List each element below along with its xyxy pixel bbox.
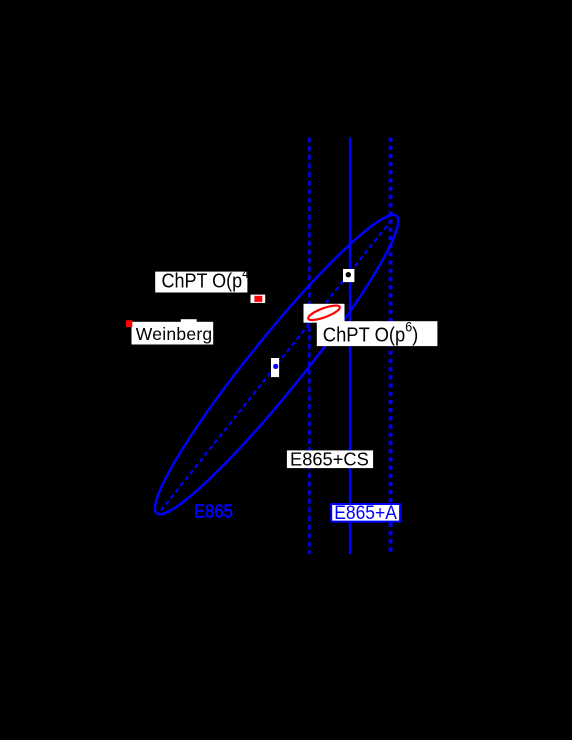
black dot marker xyxy=(346,272,351,277)
white patch behind red ChPT O(p6) ellipse xyxy=(304,304,345,323)
vertical dotted line (E865+A) xyxy=(389,138,393,555)
Weinberg red square marker xyxy=(126,320,132,327)
vertical dashed line (E865+CS left bound) xyxy=(308,138,310,555)
ChPT O(p6) label box xyxy=(317,321,438,346)
E865+A label box (blue border) xyxy=(331,504,400,522)
blue central data point (E865) xyxy=(273,364,278,369)
Weinberg label box xyxy=(132,322,214,345)
svg-text:E865+CS: E865+CS xyxy=(290,449,369,470)
ChPT O(p4) label text xyxy=(162,265,255,293)
E865 label text (blue) xyxy=(194,501,233,522)
svg-text:Weinberg: Weinberg xyxy=(136,324,213,344)
E865+CS label text xyxy=(290,449,369,470)
red ChPT O(p6) error ellipse xyxy=(307,303,342,323)
white square patch with black dot marker xyxy=(343,269,354,282)
vertical solid line (E865+CS central) xyxy=(349,138,351,555)
svg-text:E865: E865 xyxy=(194,501,233,522)
white bump above Weinberg box xyxy=(181,319,197,322)
E865 confidence ellipse (solid blue) xyxy=(136,199,417,530)
ChPT O(p4) red square marker on white patch xyxy=(251,295,266,303)
white patch behind blue central point xyxy=(271,358,279,377)
dashed major-axis line of E865 ellipse xyxy=(161,223,390,511)
ChPT O(p4) label box xyxy=(155,272,247,293)
Weinberg label text xyxy=(136,324,213,344)
E865+A label text xyxy=(334,502,397,524)
E865+CS label box xyxy=(287,450,373,468)
ChPT O(p6) label text xyxy=(323,319,418,346)
svg-text:E865+A: E865+A xyxy=(334,502,397,524)
